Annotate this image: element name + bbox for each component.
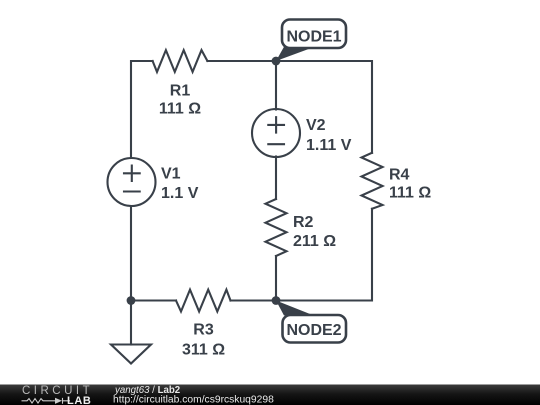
wire node1 to top-right corner and right rail down (276, 61, 372, 153)
node A junction dot at NODE1 (272, 57, 281, 66)
V2 plus sign (268, 117, 284, 132)
wire V2 bottom to R2 top (275, 157, 277, 200)
wire R2 bottom to node2 (275, 256, 277, 301)
logo resistor zigzag and diode icon (22, 398, 71, 404)
node C junction dot at NODE2 (272, 296, 281, 305)
svg-text:NODE1: NODE1 (286, 29, 341, 46)
svg-text:211 Ω: 211 Ω (293, 233, 336, 250)
footer bar (0, 385, 540, 405)
svg-text:R3: R3 (193, 322, 214, 339)
V1 minus sign (124, 190, 140, 192)
svg-text:111 Ω: 111 Ω (159, 101, 201, 118)
voltage source V2 circle (252, 109, 300, 157)
svg-text:311 Ω: 311 Ω (182, 342, 225, 359)
svg-text:R4: R4 (389, 166, 410, 183)
wire bottom-left junction to R3 left lead (131, 299, 176, 301)
resistor R4 zigzag (362, 153, 383, 209)
NODE1 bubble tail (276, 47, 310, 61)
ground symbol triangle (111, 345, 151, 364)
svg-text:NODE2: NODE2 (286, 322, 341, 339)
V2 minus sign (268, 143, 284, 145)
V1 plus sign (124, 166, 140, 181)
wire top-left: left rail top (131, 61, 153, 158)
resistor R1 zigzag (153, 50, 208, 72)
wire V1 bottom to bottom-left junction (130, 206, 132, 301)
NODE1 bubble (282, 20, 346, 49)
svg-text:R1: R1 (170, 83, 191, 100)
wire ground stem (130, 301, 132, 345)
wire R1 right lead to node1 (207, 60, 276, 62)
svg-text:http://circuitlab.com/cs9rcsku: http://circuitlab.com/cs9rcskuq9298 (113, 395, 274, 405)
svg-text:111 Ω: 111 Ω (389, 184, 431, 201)
svg-text:1.11 V: 1.11 V (306, 137, 352, 154)
svg-text:1.1 V: 1.1 V (161, 185, 199, 202)
resistor R2 zigzag (266, 199, 287, 256)
wire node1 down to V2 top (275, 61, 277, 110)
svg-text:V2: V2 (306, 117, 326, 134)
svg-text:LAB: LAB (67, 395, 91, 405)
NODE2 bubble tail (276, 301, 310, 316)
wire R3 right lead to node2 (231, 299, 277, 301)
logo diode triangle (55, 398, 62, 404)
node B junction dot bottom-left (127, 296, 136, 305)
NODE2 bubble (283, 315, 347, 343)
resistor R3 zigzag (176, 290, 231, 312)
wire node2 to bottom-right corner and right rail up (276, 209, 372, 301)
svg-text:V1: V1 (161, 166, 181, 183)
svg-text:R2: R2 (293, 214, 314, 231)
voltage source V1 circle (108, 158, 156, 206)
